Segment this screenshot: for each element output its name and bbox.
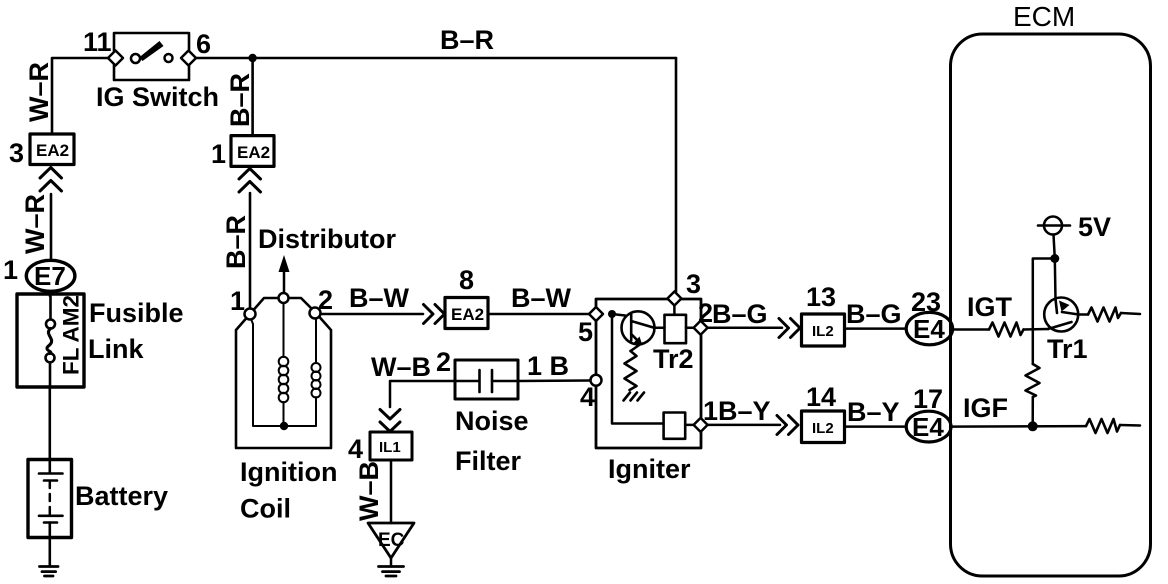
svg-text:B–R: B–R [221, 215, 251, 269]
transistor Tr1 [1044, 298, 1078, 332]
svg-text:2: 2 [436, 347, 451, 377]
wire Tr2 collector to output block [654, 327, 664, 330]
igniter output block lower [664, 413, 686, 439]
wire noise filter left lead with bend down to IL1 [390, 381, 455, 407]
battery internal lead bottom [48, 523, 51, 538]
svg-text:W–R: W–R [24, 62, 54, 122]
wire B-R from IG switch pin 6 to top-right corner [189, 57, 676, 60]
wire EC triangle to earth [390, 558, 393, 566]
IG switch contact circle 1 [131, 54, 140, 63]
resistor pull (vertical zigzag) [1026, 364, 1040, 397]
svg-text:1: 1 [211, 139, 226, 169]
wire IGF into ECM [951, 425, 1086, 428]
wire IL1 to EC ground [390, 460, 393, 523]
battery plate short top [44, 479, 57, 482]
svg-text:Filter: Filter [455, 446, 522, 476]
battery box [28, 460, 72, 538]
svg-text:EA2: EA2 [36, 141, 69, 160]
svg-text:1: 1 [703, 396, 718, 426]
ignition coil secondary winding [279, 357, 289, 403]
svg-text:Link: Link [88, 334, 144, 364]
connector EA2 pin 1 box [231, 136, 274, 167]
wire 5V to junction [1054, 235, 1055, 259]
svg-text:EA2: EA2 [451, 305, 484, 324]
svg-text:W–B: W–B [354, 461, 384, 521]
igniter terminal circle pin 4 [591, 375, 602, 386]
wire B-R junction to connector EA2-1 [251, 58, 254, 136]
svg-text:E4: E4 [913, 314, 945, 344]
igniter terminal diamond pin 1 [694, 418, 708, 432]
capacitor lead left [455, 380, 479, 383]
wire pin 3 to upper block [673, 304, 676, 315]
wire W-R from IG switch pin 11 left and down [52, 58, 115, 134]
wire through fusible link [49, 296, 52, 320]
chevron arrows below EA2-1 [239, 169, 261, 193]
svg-text:IGF: IGF [963, 393, 1008, 423]
svg-text:IL2: IL2 [812, 323, 834, 340]
ignition coil secondary lead lower [283, 402, 285, 426]
ignition coil outline [236, 298, 331, 448]
wire B-R vertical drop to igniter pin 3 [675, 58, 678, 292]
fuse element circle top [46, 320, 55, 329]
ignition coil inner wire from pin 1 [251, 319, 280, 426]
fuse element squiggle [47, 329, 52, 354]
IG switch terminal diamond pin 6 [181, 51, 196, 66]
Tr2 emitter arrowhead [633, 337, 643, 346]
wire lower block to pin 1 [685, 424, 695, 427]
ignition coil terminal circle pin 2 [310, 308, 321, 319]
node junction at B-R drop [248, 54, 256, 62]
svg-text:EC: EC [378, 530, 405, 551]
svg-text:14: 14 [806, 382, 836, 412]
svg-text:B–R: B–R [440, 25, 494, 55]
svg-text:5V: 5V [1078, 212, 1111, 242]
battery plate long bottom [39, 514, 63, 517]
capacitor plate right [491, 370, 494, 392]
svg-text:1 B: 1 B [527, 351, 569, 381]
fusible link FL AM2 box [17, 294, 84, 387]
svg-text:Ignition: Ignition [240, 457, 337, 487]
svg-text:B–W: B–W [511, 283, 572, 313]
svg-text:17: 17 [913, 384, 943, 414]
svg-text:3: 3 [686, 269, 701, 299]
ignition coil secondary lead [283, 303, 285, 357]
svg-text:E4: E4 [912, 412, 944, 442]
svg-text:2: 2 [698, 298, 713, 328]
svg-text:4: 4 [580, 382, 595, 412]
battery plate short bottom [44, 521, 57, 524]
svg-text:Tr2: Tr2 [653, 344, 694, 374]
svg-text:B–Y: B–Y [847, 397, 900, 427]
connector E4 pin 17 oval [906, 411, 951, 442]
svg-text:EA2: EA2 [237, 143, 270, 162]
wire noise filter to igniter pin 4 [518, 379, 590, 382]
svg-text:E7: E7 [34, 261, 66, 291]
node junction IGF [1028, 421, 1038, 431]
wire IGT into ECM [953, 327, 989, 330]
wire below EA2-3 chevrons to E7 [50, 194, 53, 260]
ignition coil primary lead lower [288, 397, 316, 426]
ECM box [951, 34, 1151, 576]
svg-text:IGT: IGT [967, 292, 1013, 322]
5V supply symbol [1044, 217, 1062, 235]
connector EA2 pin 3 box [30, 134, 74, 165]
capacitor lead right [492, 380, 518, 383]
wire IGT resistor to Tr1 base [1024, 328, 1049, 331]
svg-text:B–G: B–G [712, 299, 768, 329]
connector E4 pin 23 oval [906, 312, 952, 344]
wire upper block to pin 2 [686, 327, 695, 330]
wire junction left branch down to resistor [1033, 259, 1055, 365]
igniter inner wire from pin 5 junction down to lower resistor block [612, 314, 663, 424]
svg-text:IG Switch: IG Switch [96, 82, 219, 112]
IG switch contact circle 2 [165, 54, 173, 62]
svg-text:1: 1 [230, 286, 245, 316]
battery internal lead top [48, 460, 51, 474]
wire IL2-14 to E4-17 [845, 425, 907, 428]
svg-text:IL1: IL1 [379, 439, 401, 456]
svg-text:Igniter: Igniter [608, 454, 691, 484]
igniter terminal diamond pin 2 [694, 321, 708, 335]
wire IL2-13 to E4-23 [845, 327, 907, 330]
igniter terminal diamond pin 3 [667, 292, 681, 306]
svg-text:IL2: IL2 [812, 420, 834, 437]
wire resistor to IGF junction [1031, 397, 1034, 426]
distributor arrow [283, 262, 286, 293]
wire IGF resistor end [1120, 424, 1140, 427]
igniter output block upper [665, 315, 687, 343]
connector EA2 pin 8 box [445, 298, 488, 329]
capacitor plate left [478, 370, 481, 392]
svg-text:8: 8 [459, 265, 474, 295]
svg-text:Noise: Noise [455, 406, 529, 436]
svg-text:B–Y: B–Y [718, 396, 771, 426]
chevron arrows below EA2-3 [40, 168, 62, 192]
svg-text:W–R: W–R [20, 194, 50, 254]
resistor IGF (horizontal zigzag) [1086, 419, 1120, 433]
wire Tr1 emitter to resistor [1079, 313, 1089, 316]
wire E7 to fusible link box [49, 291, 52, 296]
igniter box [596, 299, 701, 448]
transistor Tr2 [622, 311, 655, 344]
ignition coil primary lead from pin 2 [315, 318, 317, 363]
svg-text:Distributor: Distributor [258, 224, 396, 254]
node junction below 5V [1050, 254, 1059, 263]
chevron arrows before IL2-13 [779, 319, 800, 338]
svg-text:ECM: ECM [1013, 1, 1075, 32]
svg-text:6: 6 [196, 29, 211, 59]
wire fuse bottom to box bottom [49, 362, 52, 387]
svg-text:B–W: B–W [349, 283, 410, 313]
noise filter box [455, 360, 518, 399]
ground symbol (battery) [40, 567, 59, 577]
wire junction to transistor Tr2 base [612, 314, 625, 316]
svg-text:2: 2 [318, 285, 333, 315]
svg-text:13: 13 [806, 282, 836, 312]
resistor IGT (horizontal zigzag) [989, 323, 1024, 337]
battery plate long top [39, 472, 63, 475]
wire below EA2-1 chevrons to ignition coil pin 1 [249, 193, 252, 309]
connector IL1 pin 4 box [370, 432, 412, 460]
ignition coil terminal circle pin 1 [245, 309, 256, 320]
wire fusible link to battery [48, 387, 51, 461]
IG switch terminal diamond pin 11 [108, 51, 123, 66]
svg-text:3: 3 [9, 138, 24, 168]
svg-text:11: 11 [83, 27, 112, 57]
chevron arrows above IL1 (pointing down) [380, 410, 400, 432]
svg-text:4: 4 [348, 434, 363, 464]
wire igniter pin 1 to chevrons (B-Y) [708, 424, 780, 427]
connector IL2 pin 14 box [802, 411, 845, 443]
battery dashed center [49, 481, 52, 515]
ground hatch inside igniter [624, 393, 645, 401]
svg-text:B–R: B–R [225, 73, 255, 127]
ground symbol (EC) [379, 567, 404, 577]
connector IL2 pin 13 box [802, 314, 845, 346]
igniter terminal diamond pin 5 [589, 307, 603, 321]
svg-text:FL AM2: FL AM2 [59, 295, 84, 375]
svg-text:Coil: Coil [240, 494, 291, 524]
svg-text:1: 1 [3, 255, 18, 285]
resistor in igniter (vertical zigzag) [625, 351, 637, 390]
node junction at igniter pin 5 [608, 310, 616, 318]
wire coil pin 2 to chevrons [321, 313, 424, 316]
ignition coil terminal circle top (distributor) [279, 293, 289, 303]
ignition coil primary winding [312, 363, 321, 398]
svg-text:B–G: B–G [846, 299, 902, 329]
svg-text:Fusible: Fusible [89, 298, 184, 328]
node common junction in coil [280, 422, 288, 430]
wire EA2-8 to igniter pin 5 [488, 313, 590, 316]
svg-text:Battery: Battery [75, 481, 168, 511]
ground EC triangle [368, 523, 414, 558]
IG switch lever [139, 41, 164, 61]
chevron arrows before EA2-8 [424, 305, 445, 324]
svg-text:Tr1: Tr1 [1047, 334, 1088, 364]
wire battery to ground [48, 537, 51, 566]
svg-text:W–B: W–B [371, 352, 431, 382]
svg-text:5: 5 [578, 317, 593, 347]
Tr1 collector arrowhead [1059, 301, 1070, 312]
connector E7 oval [26, 260, 75, 291]
svg-text:23: 23 [911, 287, 941, 317]
fuse element circle bottom [46, 353, 55, 362]
wire Tr2 emitter to resistor [631, 345, 641, 352]
resistor emitter (horizontal zigzag) [1088, 308, 1121, 322]
wire igniter pin 2 to chevrons (B-G) [708, 327, 782, 330]
wire emitter resistor end [1121, 313, 1140, 314]
wire junction to Tr1 collector [1054, 259, 1057, 300]
IG Switch box [114, 33, 189, 80]
chevron arrows before IL2-14 [777, 416, 798, 435]
